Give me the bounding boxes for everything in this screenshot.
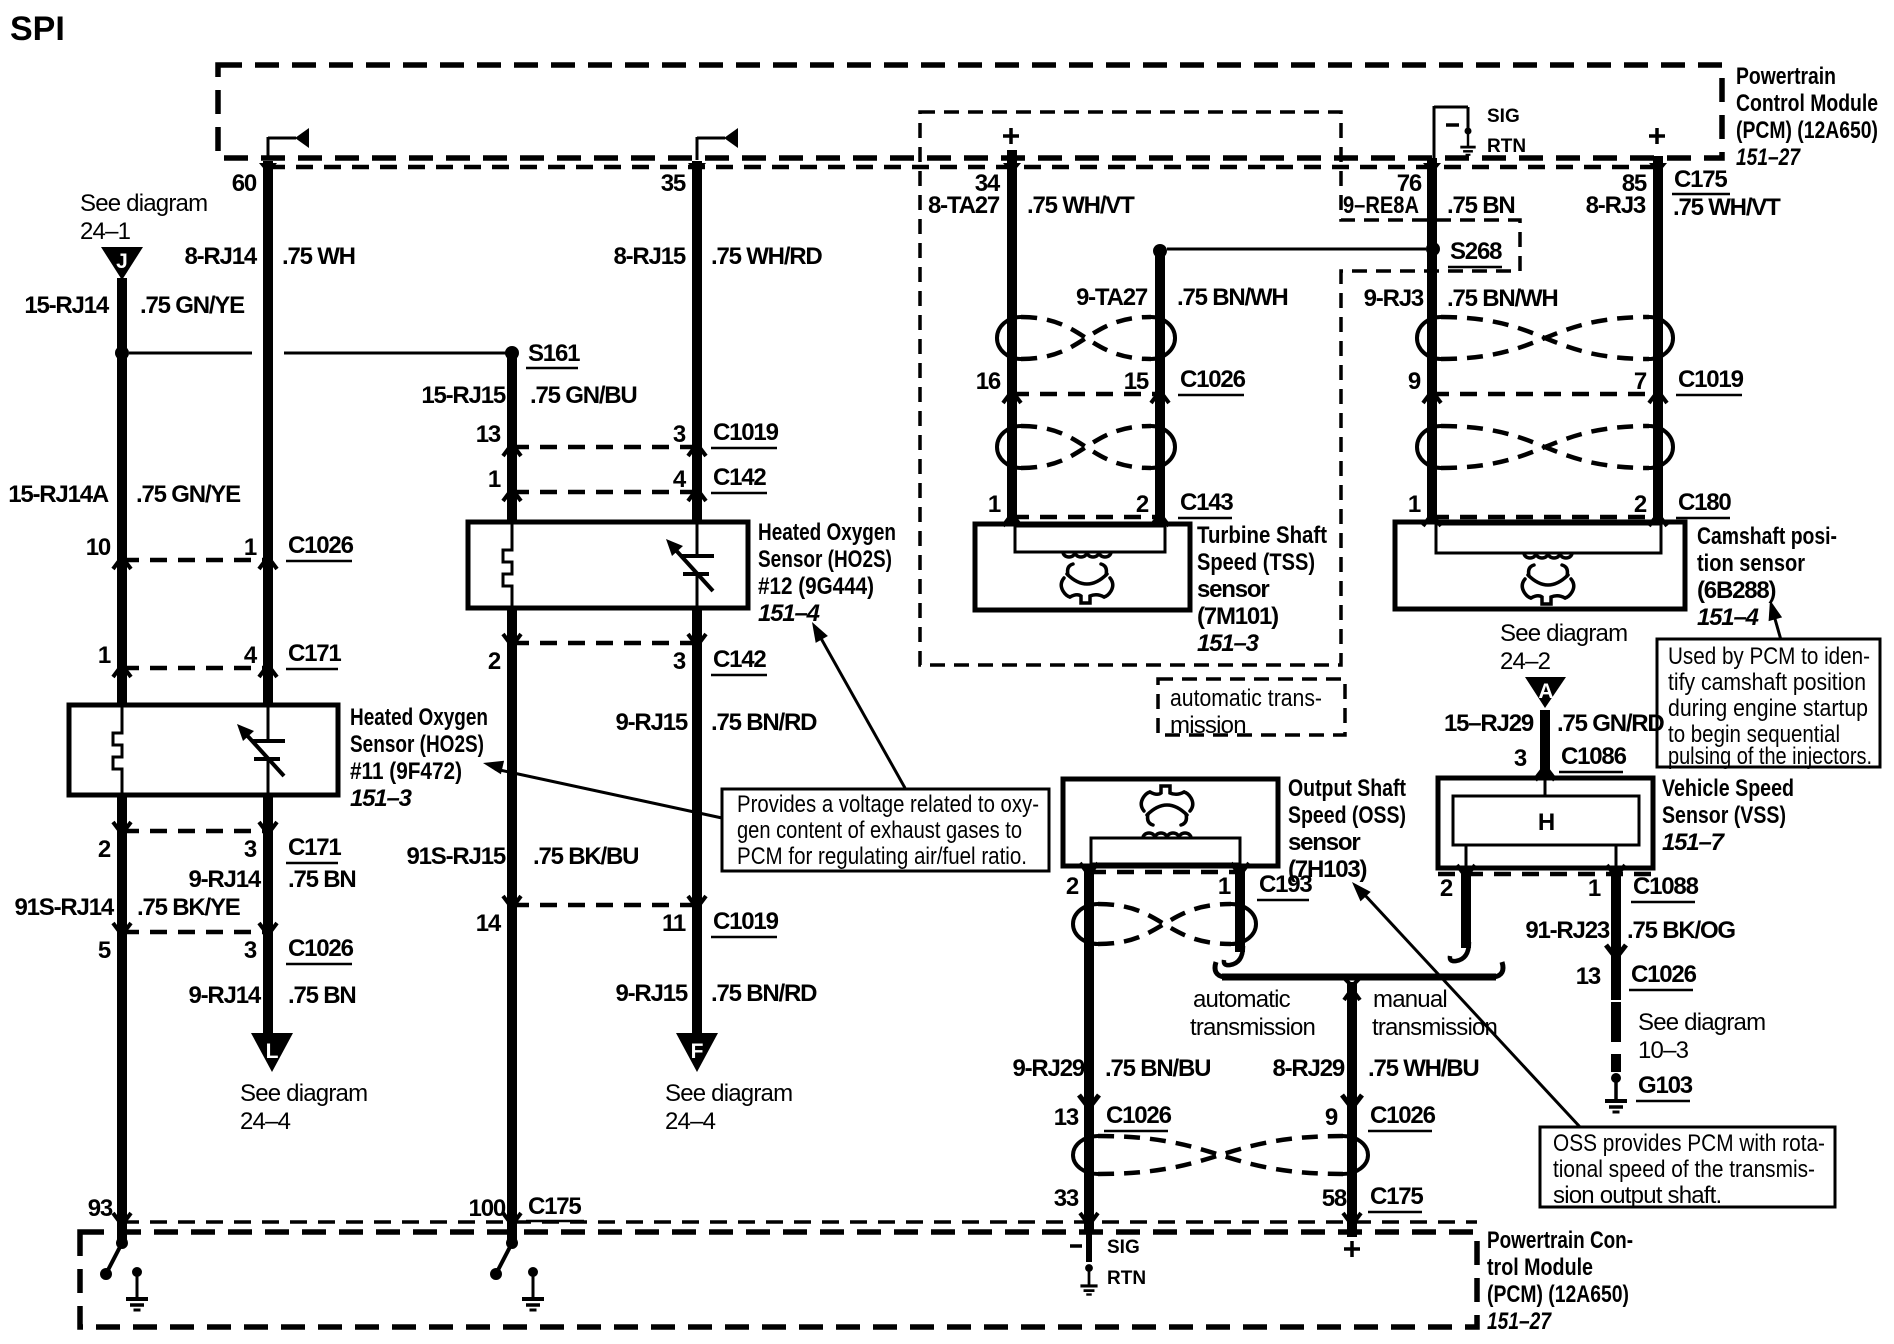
- svg-text:(6B288): (6B288): [1697, 577, 1776, 604]
- svg-text:C180: C180: [1678, 489, 1731, 516]
- splice S161: [505, 340, 580, 368]
- svg-text:3: 3: [244, 836, 257, 863]
- svg-text:See diagram: See diagram: [1638, 1009, 1765, 1036]
- svg-text:2: 2: [98, 836, 111, 863]
- svg-text:Output Shaft: Output Shaft: [1288, 775, 1406, 802]
- svg-text:C1026: C1026: [288, 532, 354, 559]
- label VSS: [1662, 775, 1794, 856]
- svg-text:2: 2: [1634, 491, 1647, 518]
- wire label 9-RJ14 .75 BN (2): [188, 982, 355, 1009]
- svg-text:16: 16: [976, 368, 1001, 395]
- wire label 8-TA27 .75 WH/VT: [928, 192, 1135, 219]
- connector C1026 below (pins 5 / 3): [122, 930, 268, 935]
- wire OSS pin 2 (9-RJ29 .75 BN/BU): [1084, 866, 1094, 1232]
- wire label 15-RJ15 .75 GN/BU: [421, 382, 636, 409]
- svg-text:C142: C142: [713, 464, 766, 491]
- PCM internal ground pin 100: [522, 1267, 544, 1310]
- svg-text:.75 GN/YE: .75 GN/YE: [136, 481, 241, 508]
- svg-text:F: F: [691, 1040, 704, 1063]
- svg-text:C1026: C1026: [1631, 961, 1697, 988]
- wire label 9-RJ14 .75 BN: [188, 866, 355, 893]
- connector C1019 (pins 9 / 7): [1432, 392, 1658, 397]
- svg-text:H: H: [1538, 809, 1554, 836]
- wire label 9-RE8A .75 BN: [1343, 192, 1515, 219]
- svg-text:33: 33: [1054, 1185, 1079, 1212]
- svg-text:transmission: transmission: [1190, 1014, 1315, 1041]
- wire 35 (8-RJ15 .75 WH/RD): [692, 161, 702, 522]
- svg-text:C1026: C1026: [1106, 1102, 1172, 1129]
- camshaft position sensor (6B288): [1395, 522, 1685, 609]
- svg-text:#12 (9G444): #12 (9G444): [758, 573, 874, 600]
- connector J triangle: [101, 247, 143, 280]
- svg-text:93: 93: [88, 1195, 113, 1222]
- svg-text:2: 2: [1066, 873, 1079, 900]
- svg-text:2: 2: [1440, 875, 1453, 902]
- wire label 9-RJ3 .75 BN/WH: [1364, 285, 1558, 312]
- svg-text:.75 WH/VT: .75 WH/VT: [1673, 194, 1781, 221]
- twisted pair OSS to PCM: [1073, 1136, 1098, 1174]
- wire 60 lower segment: [263, 795, 273, 1035]
- svg-text:.75 BN/RD: .75 BN/RD: [711, 709, 817, 736]
- wire label 91S-RJ15 .75 BK/BU: [407, 843, 639, 870]
- svg-text:13: 13: [1576, 963, 1601, 990]
- svg-text:Turbine Shaft: Turbine Shaft: [1197, 522, 1327, 549]
- wire label 9-RJ15 .75 BN/RD (2): [615, 980, 817, 1007]
- wire J (15-RJ14 .75 GN/YE): [117, 278, 127, 705]
- svg-text:See diagram: See diagram: [665, 1080, 792, 1107]
- callout arrow to OSS pin 1: [1352, 882, 1580, 1127]
- twisted pair TSS upper: [997, 317, 1021, 359]
- note box automatic transmission tab: [1158, 679, 1345, 739]
- twisted pair camshaft upper: [1417, 317, 1441, 359]
- svg-text:35: 35: [661, 170, 686, 197]
- connector C175 label (pin 85): [1672, 166, 1781, 221]
- module PCM top box (12A650): [218, 65, 1722, 158]
- svg-text:24–2: 24–2: [1500, 648, 1551, 675]
- svg-text:58: 58: [1322, 1185, 1347, 1212]
- svg-text:9-RJ15: 9-RJ15: [615, 980, 687, 1007]
- svg-text:151–4: 151–4: [758, 600, 820, 627]
- svg-text:gen content of exhaust gases t: gen content of exhaust gases to: [737, 817, 1022, 844]
- svg-text:C193: C193: [1259, 871, 1312, 898]
- note box: provides voltage to PCM: [722, 789, 1049, 871]
- PCM internal switch pin 93: [100, 1237, 128, 1280]
- svg-text:10–3: 10–3: [1638, 1037, 1689, 1064]
- note see diagram 24-4 mid: [665, 1080, 792, 1135]
- pigtail hook OSS pin 1: [1224, 946, 1243, 965]
- connector C1026 (pin 13) OSS: [1054, 1102, 1172, 1131]
- svg-text:C171: C171: [288, 834, 341, 861]
- connector C143 (pins 1 / 2): [1012, 515, 1160, 520]
- dashed region automatic transmission (TSS + S268): [920, 112, 1520, 665]
- svg-text:manual: manual: [1373, 986, 1447, 1013]
- svg-text:sensor: sensor: [1197, 576, 1269, 603]
- wire 76 (9-RE8A .75 BN): [1427, 158, 1437, 522]
- note see diagram 24-2: [1500, 620, 1627, 675]
- PCM pin stub wire 35: [697, 128, 738, 160]
- svg-text:Sensor (VSS): Sensor (VSS): [1662, 802, 1786, 829]
- svg-text:SPI: SPI: [10, 10, 65, 48]
- svg-text:5: 5: [98, 937, 111, 964]
- svg-text:tional speed of the transmis-: tional speed of the transmis-: [1553, 1156, 1815, 1183]
- svg-text:1: 1: [1218, 873, 1231, 900]
- svg-text:S268: S268: [1450, 238, 1502, 265]
- svg-text:9-RJ29: 9-RJ29: [1012, 1055, 1084, 1082]
- svg-text:151–4: 151–4: [1697, 604, 1759, 631]
- svg-text:91S-RJ14: 91S-RJ14: [15, 894, 115, 921]
- svg-text:13: 13: [1054, 1104, 1079, 1131]
- svg-text:.75 WH: .75 WH: [282, 243, 355, 270]
- pin 100 / connector C175 bottom label: [469, 1193, 584, 1222]
- svg-text:9–RE8A: 9–RE8A: [1343, 192, 1419, 219]
- svg-text:151–7: 151–7: [1662, 829, 1726, 856]
- svg-text:91S-RJ15: 91S-RJ15: [407, 843, 506, 870]
- svg-text:tify camshaft position: tify camshaft position: [1668, 669, 1866, 696]
- svg-text:Sensor (HO2S): Sensor (HO2S): [350, 731, 484, 758]
- svg-text:Sensor (HO2S): Sensor (HO2S): [758, 546, 892, 573]
- svg-text:.75 BN: .75 BN: [1447, 192, 1515, 219]
- wire S161 lower segment: [507, 608, 517, 1241]
- svg-text:.75 BK/OG: .75 BK/OG: [1627, 917, 1735, 944]
- svg-text:151–27: 151–27: [1736, 144, 1801, 171]
- wire label 15-RJ29 .75 GN/RD: [1444, 710, 1664, 737]
- svg-text:3: 3: [673, 421, 686, 448]
- heated oxygen sensor HO2S #11 (9F472): [69, 705, 338, 795]
- svg-text:151–27: 151–27: [1487, 1308, 1552, 1335]
- wire label 15-RJ14A .75 GN/YE: [8, 481, 241, 508]
- svg-text:G103: G103: [1638, 1072, 1693, 1099]
- connector C142 below (pins 2 / 3): [512, 641, 697, 646]
- svg-text:8-RJ3: 8-RJ3: [1586, 192, 1646, 219]
- svg-text:91-RJ23: 91-RJ23: [1525, 917, 1610, 944]
- wire S161 branch (15-RJ15 .75 GN/BU): [507, 353, 517, 522]
- svg-text:8-TA27: 8-TA27: [928, 192, 1000, 219]
- svg-text:151–3: 151–3: [350, 785, 413, 812]
- heated oxygen sensor HO2S #12 (9G444): [468, 522, 748, 608]
- wire label 8-RJ14 .75 WH: [184, 243, 354, 270]
- svg-text:4: 4: [244, 642, 258, 669]
- connector C1026 (pin 13) VSS: [1576, 961, 1697, 990]
- wire manual transmission (8-RJ29 .75 WH/BU): [1347, 982, 1357, 1237]
- note see diagram 24-4 left: [240, 1080, 367, 1135]
- svg-text:8-RJ29: 8-RJ29: [1272, 1055, 1344, 1082]
- PCM internal plus sign pin 34: [1003, 128, 1019, 144]
- svg-text:.75 WH/BU: .75 WH/BU: [1368, 1055, 1479, 1082]
- svg-text:.75 BN: .75 BN: [288, 866, 356, 893]
- wire VSS pin 2: [1461, 868, 1471, 948]
- PCM internal plus sign pin 85: [1649, 128, 1665, 144]
- svg-text:1: 1: [1408, 491, 1421, 518]
- label OSS: [1288, 775, 1406, 883]
- svg-text:9-RJ15: 9-RJ15: [615, 709, 687, 736]
- note see diagram 24-1: [80, 190, 207, 245]
- svg-text:15-RJ14: 15-RJ14: [24, 292, 110, 319]
- callout arrow to HO2S #12: [812, 622, 905, 788]
- svg-text:C1019: C1019: [713, 419, 779, 446]
- svg-text:C175: C175: [1674, 166, 1727, 193]
- svg-text:3: 3: [673, 648, 686, 675]
- pin 58 / connector C175: [1322, 1183, 1424, 1212]
- svg-text:RTN: RTN: [1487, 136, 1526, 157]
- splice junction on wire J: [115, 346, 129, 360]
- callout arrow to HO2S #11: [483, 761, 722, 818]
- wire 85 (8-RJ3 .75 WH/VT): [1653, 156, 1663, 522]
- svg-text:C1086: C1086: [1561, 743, 1627, 770]
- label HO2S #11: [350, 704, 488, 812]
- svg-text:PCM for regulating air/fuel ra: PCM for regulating air/fuel ratio.: [737, 843, 1027, 870]
- PCM pin stub wire 60: [268, 128, 309, 160]
- off-page arrow L: [251, 1033, 293, 1072]
- svg-text:60: 60: [232, 170, 257, 197]
- connector C142 (pins 1 / 4): [512, 490, 697, 495]
- svg-text:C143: C143: [1180, 489, 1233, 516]
- svg-text:during engine startup: during engine startup: [1668, 695, 1868, 722]
- svg-text:8-RJ14: 8-RJ14: [184, 243, 257, 270]
- svg-text:See diagram: See diagram: [80, 190, 207, 217]
- pins 2 / 1 C1088: [1440, 873, 1699, 902]
- connector C1019 (pins 13 / 3): [512, 445, 697, 450]
- wire label 15-RJ14 .75 GN/YE: [24, 292, 245, 319]
- svg-text:9-RJ14: 9-RJ14: [188, 866, 261, 893]
- pin 58 plus: [1344, 1241, 1360, 1257]
- svg-text:C175: C175: [528, 1193, 581, 1220]
- svg-text:9-RJ3: 9-RJ3: [1364, 285, 1424, 312]
- twisted pair TSS lower: [997, 426, 1021, 468]
- svg-text:2: 2: [1136, 491, 1149, 518]
- wire VSS input (15-RJ29 .75 GN/RD): [1540, 710, 1550, 778]
- connector C1088 dashed line: [1438, 872, 1653, 877]
- svg-text:2: 2: [488, 648, 501, 675]
- svg-text:Speed (OSS): Speed (OSS): [1288, 802, 1406, 829]
- splice S268: [1167, 238, 1502, 267]
- twisted pair camshaft lower: [1417, 426, 1441, 468]
- svg-text:SIG: SIG: [1107, 1237, 1140, 1258]
- svg-text:7: 7: [1634, 368, 1647, 395]
- turbine shaft speed sensor TSS (7M101): [975, 524, 1190, 610]
- svg-text:Heated Oxygen: Heated Oxygen: [758, 519, 896, 546]
- output shaft speed sensor OSS (7H103): [1063, 779, 1278, 866]
- svg-text:Used by PCM to iden-: Used by PCM to iden-: [1668, 643, 1870, 670]
- connector C193 dashed line: [1089, 870, 1240, 875]
- connector C171 below (pins 2 / 3): [122, 829, 268, 834]
- svg-text:15-RJ14A: 15-RJ14A: [8, 481, 109, 508]
- svg-text:sion output shaft.: sion output shaft.: [1553, 1182, 1721, 1209]
- svg-text:(PCM) (12A650): (PCM) (12A650): [1487, 1281, 1629, 1308]
- label camshaft position sensor: [1697, 523, 1837, 631]
- wire J lower segment: [117, 795, 127, 1241]
- svg-text:C1088: C1088: [1633, 873, 1699, 900]
- svg-text:9: 9: [1408, 368, 1421, 395]
- wire label 91-RJ23 .75 BK/OG: [1525, 917, 1735, 944]
- svg-text:9-RJ14: 9-RJ14: [188, 982, 261, 1009]
- svg-text:13: 13: [476, 421, 501, 448]
- svg-text:Camshaft posi-: Camshaft posi-: [1697, 523, 1837, 550]
- note see diagram 10-3: [1638, 1009, 1765, 1064]
- svg-text:C1019: C1019: [713, 908, 779, 935]
- svg-text:151–3: 151–3: [1197, 630, 1260, 657]
- svg-text:S161: S161: [528, 340, 580, 367]
- svg-text:J: J: [116, 250, 128, 273]
- svg-text:Control Module: Control Module: [1736, 90, 1878, 117]
- svg-text:.75 GN/BU: .75 GN/BU: [530, 382, 637, 409]
- connector C180 (pins 1 / 2): [1432, 515, 1658, 520]
- svg-text:C1026: C1026: [1370, 1102, 1436, 1129]
- svg-text:14: 14: [476, 910, 502, 937]
- svg-text:sensor: sensor: [1288, 829, 1360, 856]
- svg-text:C1026: C1026: [288, 935, 354, 962]
- connector C1086 (pin 3): [1514, 743, 1627, 780]
- svg-text:OSS provides PCM with rota-: OSS provides PCM with rota-: [1553, 1130, 1825, 1157]
- connector C1019 below (pins 14 / 11): [512, 903, 697, 908]
- svg-text:RTN: RTN: [1107, 1268, 1146, 1289]
- svg-text:.75 BN/BU: .75 BN/BU: [1105, 1055, 1210, 1082]
- svg-text:3: 3: [1514, 745, 1527, 772]
- note box: OSS provides PCM with rotational speed: [1540, 1127, 1835, 1209]
- connector A triangle: [1525, 677, 1566, 708]
- svg-text:15–RJ29: 15–RJ29: [1444, 710, 1534, 737]
- svg-text:.75 BN/RD: .75 BN/RD: [711, 980, 817, 1007]
- wire label 9-TA27 .75 BN/WH: [1076, 284, 1288, 311]
- off-page arrow F: [676, 1033, 718, 1072]
- svg-text:C1019: C1019: [1678, 366, 1744, 393]
- wire OSS pin 1: [1235, 866, 1245, 952]
- connector C1026 (pins 10 / 1): [122, 558, 268, 563]
- svg-text:24–4: 24–4: [240, 1108, 291, 1135]
- callout arrow to 151-4: [1769, 600, 1783, 640]
- wire 60 (8-RJ14 .75 WH): [263, 161, 273, 705]
- wire to splice S161: [129, 352, 506, 355]
- svg-text:100: 100: [469, 1195, 506, 1222]
- svg-text:24–4: 24–4: [665, 1108, 716, 1135]
- junction bus automatic/manual: [1215, 962, 1503, 986]
- connector C1026 (pins 16 / 15): [1012, 392, 1160, 397]
- svg-text:SIG: SIG: [1487, 106, 1520, 127]
- label PCM bottom: [1487, 1227, 1633, 1335]
- svg-text:L: L: [266, 1040, 279, 1063]
- wire label 9-RJ29 .75 BN/BU: [1012, 1055, 1210, 1082]
- svg-text:Heated Oxygen: Heated Oxygen: [350, 704, 488, 731]
- svg-text:(7M101): (7M101): [1197, 603, 1278, 630]
- connector C171 (pins 1 / 4): [122, 666, 268, 671]
- svg-text:.75 BN: .75 BN: [288, 982, 356, 1009]
- svg-text:.75 WH/VT: .75 WH/VT: [1027, 192, 1135, 219]
- svg-text:1: 1: [244, 534, 257, 561]
- wire continuation dashes to G103: [1611, 1002, 1621, 1042]
- svg-text:Provides a voltage related to: Provides a voltage related to oxy-: [737, 791, 1039, 818]
- connector C175 bottom dashed line: [122, 1220, 1477, 1224]
- svg-text:.75 WH/RD: .75 WH/RD: [711, 243, 822, 270]
- svg-text:11: 11: [662, 910, 686, 937]
- module PCM bottom box (12A650): [80, 1232, 1477, 1327]
- svg-text:1: 1: [488, 466, 501, 493]
- label HO2S #12: [758, 519, 896, 627]
- svg-text:8-RJ15: 8-RJ15: [613, 243, 685, 270]
- svg-text:24–1: 24–1: [80, 218, 131, 245]
- twisted pair OSS: [1073, 904, 1098, 944]
- note box: used by PCM to identify camshaft position: [1657, 639, 1880, 770]
- svg-text:mission: mission: [1170, 712, 1246, 739]
- svg-text:Vehicle Speed: Vehicle Speed: [1662, 775, 1794, 802]
- wire label 9-RJ15 .75 BN/RD: [615, 709, 817, 736]
- svg-text:C1026: C1026: [1180, 366, 1246, 393]
- PCM internal switch pin 100: [490, 1237, 518, 1280]
- wire label 8-RJ15 .75 WH/RD: [613, 243, 822, 270]
- svg-text:3: 3: [244, 937, 257, 964]
- label TSS sensor: [1197, 522, 1327, 657]
- svg-text:tion sensor: tion sensor: [1697, 550, 1805, 577]
- wire label 91S-RJ14 .75 BK/YE: [15, 894, 241, 921]
- svg-text:C175: C175: [1370, 1183, 1423, 1210]
- connector C1026 (pin 9) manual: [1325, 1102, 1436, 1131]
- wire TSS return (9-TA27 .75 BN/WH): [1153, 244, 1167, 524]
- connector C175 top dashed line: [268, 165, 1660, 170]
- svg-text:automatic trans-: automatic trans-: [1170, 685, 1322, 712]
- svg-text:(PCM) (12A650): (PCM) (12A650): [1736, 117, 1878, 144]
- pins 2 / 1 C193: [1066, 871, 1313, 900]
- wire 35 lower segment: [692, 608, 702, 1035]
- wire VSS pin 1 (91-RJ23 .75 BK/OG): [1611, 868, 1621, 1000]
- svg-text:See diagram: See diagram: [240, 1080, 367, 1107]
- svg-text:See diagram: See diagram: [1500, 620, 1627, 647]
- svg-text:15-RJ15: 15-RJ15: [421, 382, 506, 409]
- svg-text:1: 1: [98, 642, 111, 669]
- svg-text:.75 BK/BU: .75 BK/BU: [533, 843, 638, 870]
- label automatic transmission: [1190, 986, 1315, 1041]
- svg-text:A: A: [1538, 680, 1553, 703]
- svg-text:10: 10: [86, 534, 111, 561]
- svg-text:Powertrain: Powertrain: [1736, 63, 1836, 90]
- svg-text:1: 1: [1588, 875, 1601, 902]
- svg-text:Powertrain Con-: Powertrain Con-: [1487, 1227, 1633, 1254]
- svg-text:9-TA27: 9-TA27: [1076, 284, 1148, 311]
- svg-text:automatic: automatic: [1193, 986, 1291, 1013]
- svg-text:trol Module: trol Module: [1487, 1254, 1593, 1281]
- ground G103: [1605, 1073, 1627, 1112]
- svg-text:#11 (9F472): #11 (9F472): [350, 758, 462, 785]
- svg-text:.75 GN/YE: .75 GN/YE: [140, 292, 245, 319]
- pin 33 SIG RTN internals: [1070, 1232, 1146, 1295]
- label PCM top: [1736, 63, 1878, 171]
- svg-text:.75 BN/WH: .75 BN/WH: [1177, 284, 1288, 311]
- PCM internal SIG RTN symbol: [1434, 106, 1526, 158]
- svg-text:9: 9: [1325, 1104, 1338, 1131]
- PCM internal ground pin 93: [126, 1267, 148, 1310]
- vehicle speed sensor VSS: [1438, 778, 1653, 868]
- svg-text:pulsing of the injectors.: pulsing of the injectors.: [1668, 743, 1872, 770]
- svg-text:.75 BN/WH: .75 BN/WH: [1447, 285, 1558, 312]
- svg-text:Speed (TSS): Speed (TSS): [1197, 549, 1315, 576]
- wire label 8-RJ29 .75 WH/BU: [1272, 1055, 1478, 1082]
- wire 34 (8-TA27 .75 WH/VT): [1007, 150, 1017, 524]
- svg-text:.75 BK/YE: .75 BK/YE: [137, 894, 241, 921]
- svg-text:.75 GN/RD: .75 GN/RD: [1557, 710, 1664, 737]
- label manual transmission: [1372, 986, 1497, 1041]
- svg-text:C171: C171: [288, 640, 341, 667]
- svg-text:15: 15: [1124, 368, 1149, 395]
- svg-text:1: 1: [988, 491, 1001, 518]
- svg-text:4: 4: [673, 466, 687, 493]
- svg-text:C142: C142: [713, 646, 766, 673]
- pigtail hook VSS pin 2: [1450, 942, 1469, 961]
